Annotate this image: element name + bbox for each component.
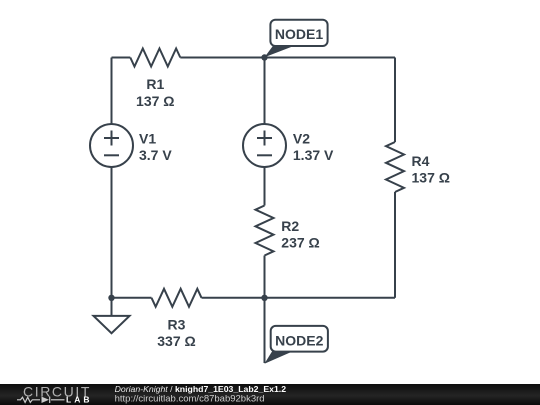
svg-text:R1: R1 bbox=[146, 76, 164, 92]
svg-text:237 Ω: 237 Ω bbox=[281, 234, 319, 250]
svg-text:http://circuitlab.com/c87bab92: http://circuitlab.com/c87bab92bk3rd bbox=[115, 394, 265, 405]
svg-text:V1: V1 bbox=[139, 130, 156, 146]
svg-text:1.37 V: 1.37 V bbox=[293, 147, 334, 163]
svg-text:R4: R4 bbox=[412, 153, 430, 169]
svg-text:137 Ω: 137 Ω bbox=[412, 170, 450, 186]
svg-text:3.7 V: 3.7 V bbox=[139, 147, 172, 163]
svg-text:R2: R2 bbox=[281, 218, 299, 234]
svg-text:V2: V2 bbox=[293, 130, 310, 146]
svg-text:Dorian-Knight / knighd7_1E03_L: Dorian-Knight / knighd7_1E03_Lab2_Ex1.2 bbox=[115, 384, 287, 394]
svg-text:NODE1: NODE1 bbox=[275, 26, 323, 42]
svg-text:337 Ω: 337 Ω bbox=[157, 333, 195, 349]
svg-text:R3: R3 bbox=[168, 317, 186, 333]
svg-text:NODE2: NODE2 bbox=[275, 332, 323, 348]
svg-text:137 Ω: 137 Ω bbox=[136, 93, 174, 109]
svg-text:LAB: LAB bbox=[66, 394, 92, 404]
